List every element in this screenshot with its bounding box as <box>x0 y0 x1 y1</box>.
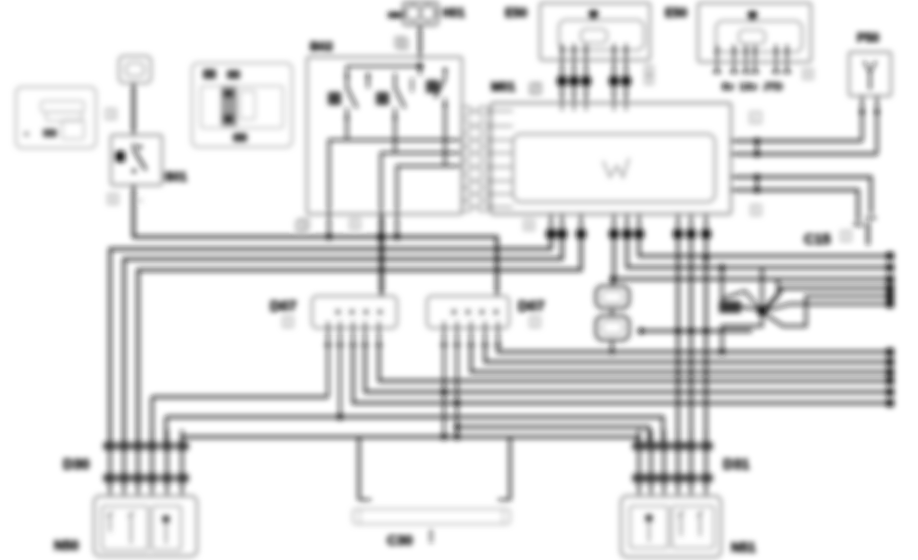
wire C30 right drop <box>509 437 512 500</box>
switch B01 <box>111 135 162 185</box>
svg-text:E50: E50 <box>505 6 527 20</box>
wire <box>132 185 135 238</box>
pin label <box>283 317 293 327</box>
wire M01 to P50 a <box>731 140 862 143</box>
wire g3-2 <box>690 240 693 446</box>
connector pin row 1 <box>462 110 513 112</box>
wire M01 to C15 b <box>731 190 858 222</box>
wire L1 <box>498 347 893 352</box>
wire L5 <box>365 347 893 392</box>
wire y331 <box>641 330 752 333</box>
wire H01 to B02 <box>419 25 422 60</box>
wire cluster branch b <box>765 279 778 310</box>
wire coil top <box>721 268 723 302</box>
D07R pin wires <box>443 322 445 347</box>
M01 bottom pins group1 <box>550 214 552 240</box>
legend box <box>16 87 96 148</box>
wire g3-1 <box>677 240 680 446</box>
pin label <box>106 109 116 119</box>
wire g2-1 <box>614 238 893 279</box>
wire D07R p2 down <box>456 347 458 437</box>
switch E50 left <box>540 3 650 60</box>
connector block b <box>596 316 629 340</box>
ignition switch pictogram <box>192 63 292 147</box>
wire L2 <box>485 347 893 362</box>
svg-text:D07: D07 <box>518 299 545 315</box>
connector D07 left <box>312 296 397 328</box>
D07L pin wires <box>327 322 329 347</box>
top pin marks <box>561 103 563 110</box>
svg-text:C: C <box>753 114 759 123</box>
svg-text:2: 2 <box>533 318 538 327</box>
wire M01 to P50 b <box>731 153 877 156</box>
connector pin row 6 <box>462 180 513 182</box>
connector pin row 5 <box>462 166 513 168</box>
wire M01 to C15 a <box>731 177 871 214</box>
svg-text:H01: H01 <box>442 6 465 20</box>
wire D07R p1 down <box>443 347 445 437</box>
relay K2 <box>376 92 389 105</box>
connector pin row 3 <box>462 139 513 141</box>
wire B01 feed <box>134 237 498 296</box>
svg-text:2: 2 <box>647 75 652 84</box>
wire coil horiz <box>722 291 761 310</box>
symbol <box>603 158 629 177</box>
wire D07L p2 down <box>339 347 341 417</box>
svg-text:5: 5 <box>754 206 759 215</box>
wire L6 <box>353 347 893 403</box>
wire L3 <box>471 347 893 372</box>
fuse F10 <box>119 56 151 83</box>
svg-text:1: 1 <box>401 40 406 49</box>
relay K3 <box>426 80 439 93</box>
pin label <box>750 112 761 123</box>
node N50 <box>94 496 197 556</box>
wire bus <box>110 238 551 444</box>
svg-text:8v 16v JTD: 8v 16v JTD <box>722 81 783 93</box>
B02 bottom stubs <box>328 214 330 237</box>
wire relay2 run <box>395 118 462 153</box>
wire relay1 run <box>347 118 462 140</box>
M01 bottom pins group2 <box>613 214 615 240</box>
horn H01 <box>403 2 438 25</box>
wire top link <box>347 66 420 73</box>
wire L10 <box>152 396 328 399</box>
connector D07 right <box>427 296 509 328</box>
wire bundle y296 <box>762 296 893 326</box>
wires E50-1 to M01 <box>561 60 563 103</box>
wire C30 left drop <box>358 437 361 500</box>
connector D30 row2 <box>104 474 117 482</box>
pin label <box>530 84 540 94</box>
node N51 <box>621 496 721 557</box>
svg-text:D07: D07 <box>270 299 297 315</box>
connector D30 row1 <box>104 442 117 450</box>
wire <box>132 83 135 136</box>
svg-text:M01: M01 <box>491 80 515 94</box>
pin label <box>531 83 541 93</box>
svg-text:6: 6 <box>111 195 116 204</box>
connector D31 row2 <box>633 474 646 482</box>
svg-text:N50: N50 <box>54 538 79 553</box>
pin label <box>299 219 309 229</box>
connector block a <box>596 286 629 308</box>
junction X <box>758 307 767 316</box>
pin label <box>395 37 405 47</box>
wire L7 <box>166 417 663 444</box>
svg-text:8: 8 <box>806 70 811 79</box>
svg-text:D30: D30 <box>63 457 90 473</box>
D31 wires <box>638 430 641 496</box>
connector pin row 8 <box>462 206 513 208</box>
svg-text:D31: D31 <box>723 457 750 473</box>
svg-text:2: 2 <box>844 232 849 241</box>
wire L9 full <box>182 437 638 444</box>
wire g2-1 to relay <box>612 279 615 287</box>
wires P50 down <box>861 96 863 141</box>
svg-text:1: 1 <box>647 65 652 74</box>
wire C30 right foot <box>498 499 510 501</box>
wire bundle y304 <box>764 304 893 311</box>
wire bundle y288 <box>764 288 893 309</box>
wire g2-3 long right <box>639 238 893 256</box>
connector C15 <box>867 222 870 245</box>
pin label <box>530 317 540 327</box>
pin label <box>803 69 813 79</box>
wire cluster down <box>722 311 762 352</box>
svg-text:2: 2 <box>286 318 291 327</box>
connector C30 <box>353 509 510 524</box>
wire C30 left foot <box>359 499 371 501</box>
pin label <box>524 220 534 230</box>
connector pin row 2 <box>462 125 513 127</box>
svg-text:5: 5 <box>353 220 358 229</box>
switch E50 right <box>698 3 811 62</box>
pin label <box>751 205 761 215</box>
relay K1 <box>328 92 341 105</box>
pin label <box>398 39 408 49</box>
wire cluster branch a <box>761 268 763 310</box>
M01 bottom pins group3 <box>677 214 679 240</box>
wire g2-2 <box>627 238 893 268</box>
D30 wires <box>109 430 112 496</box>
fusebox B02 <box>307 57 462 214</box>
svg-text:E50: E50 <box>665 6 687 20</box>
open wire ends <box>716 62 718 72</box>
wire L4 <box>379 347 893 381</box>
wire bus <box>124 238 562 444</box>
svg-text:C15: C15 <box>804 232 831 248</box>
wire relay3 run <box>445 108 462 166</box>
svg-text:B01: B01 <box>164 170 187 184</box>
body computer M01 <box>491 103 731 214</box>
svg-text:B02: B02 <box>310 40 333 54</box>
svg-text:N51: N51 <box>731 540 756 555</box>
svg-text:A: A <box>526 221 532 230</box>
wire bus <box>138 238 581 444</box>
connector pin row 7 <box>462 193 513 195</box>
stub <box>611 308 613 316</box>
svg-text:P50: P50 <box>857 31 879 45</box>
connector pin row 4 <box>462 152 513 154</box>
pin label <box>108 194 118 204</box>
svg-text:3: 3 <box>109 110 114 119</box>
wire g3-3 <box>705 240 708 446</box>
svg-text:7: 7 <box>534 84 539 93</box>
svg-text:n: n <box>138 196 142 205</box>
connector D31 row1 <box>633 442 646 450</box>
wire L8 <box>457 427 649 444</box>
relay coil <box>719 301 741 313</box>
svg-text:C30: C30 <box>387 532 413 548</box>
antenna P50 <box>849 52 891 96</box>
